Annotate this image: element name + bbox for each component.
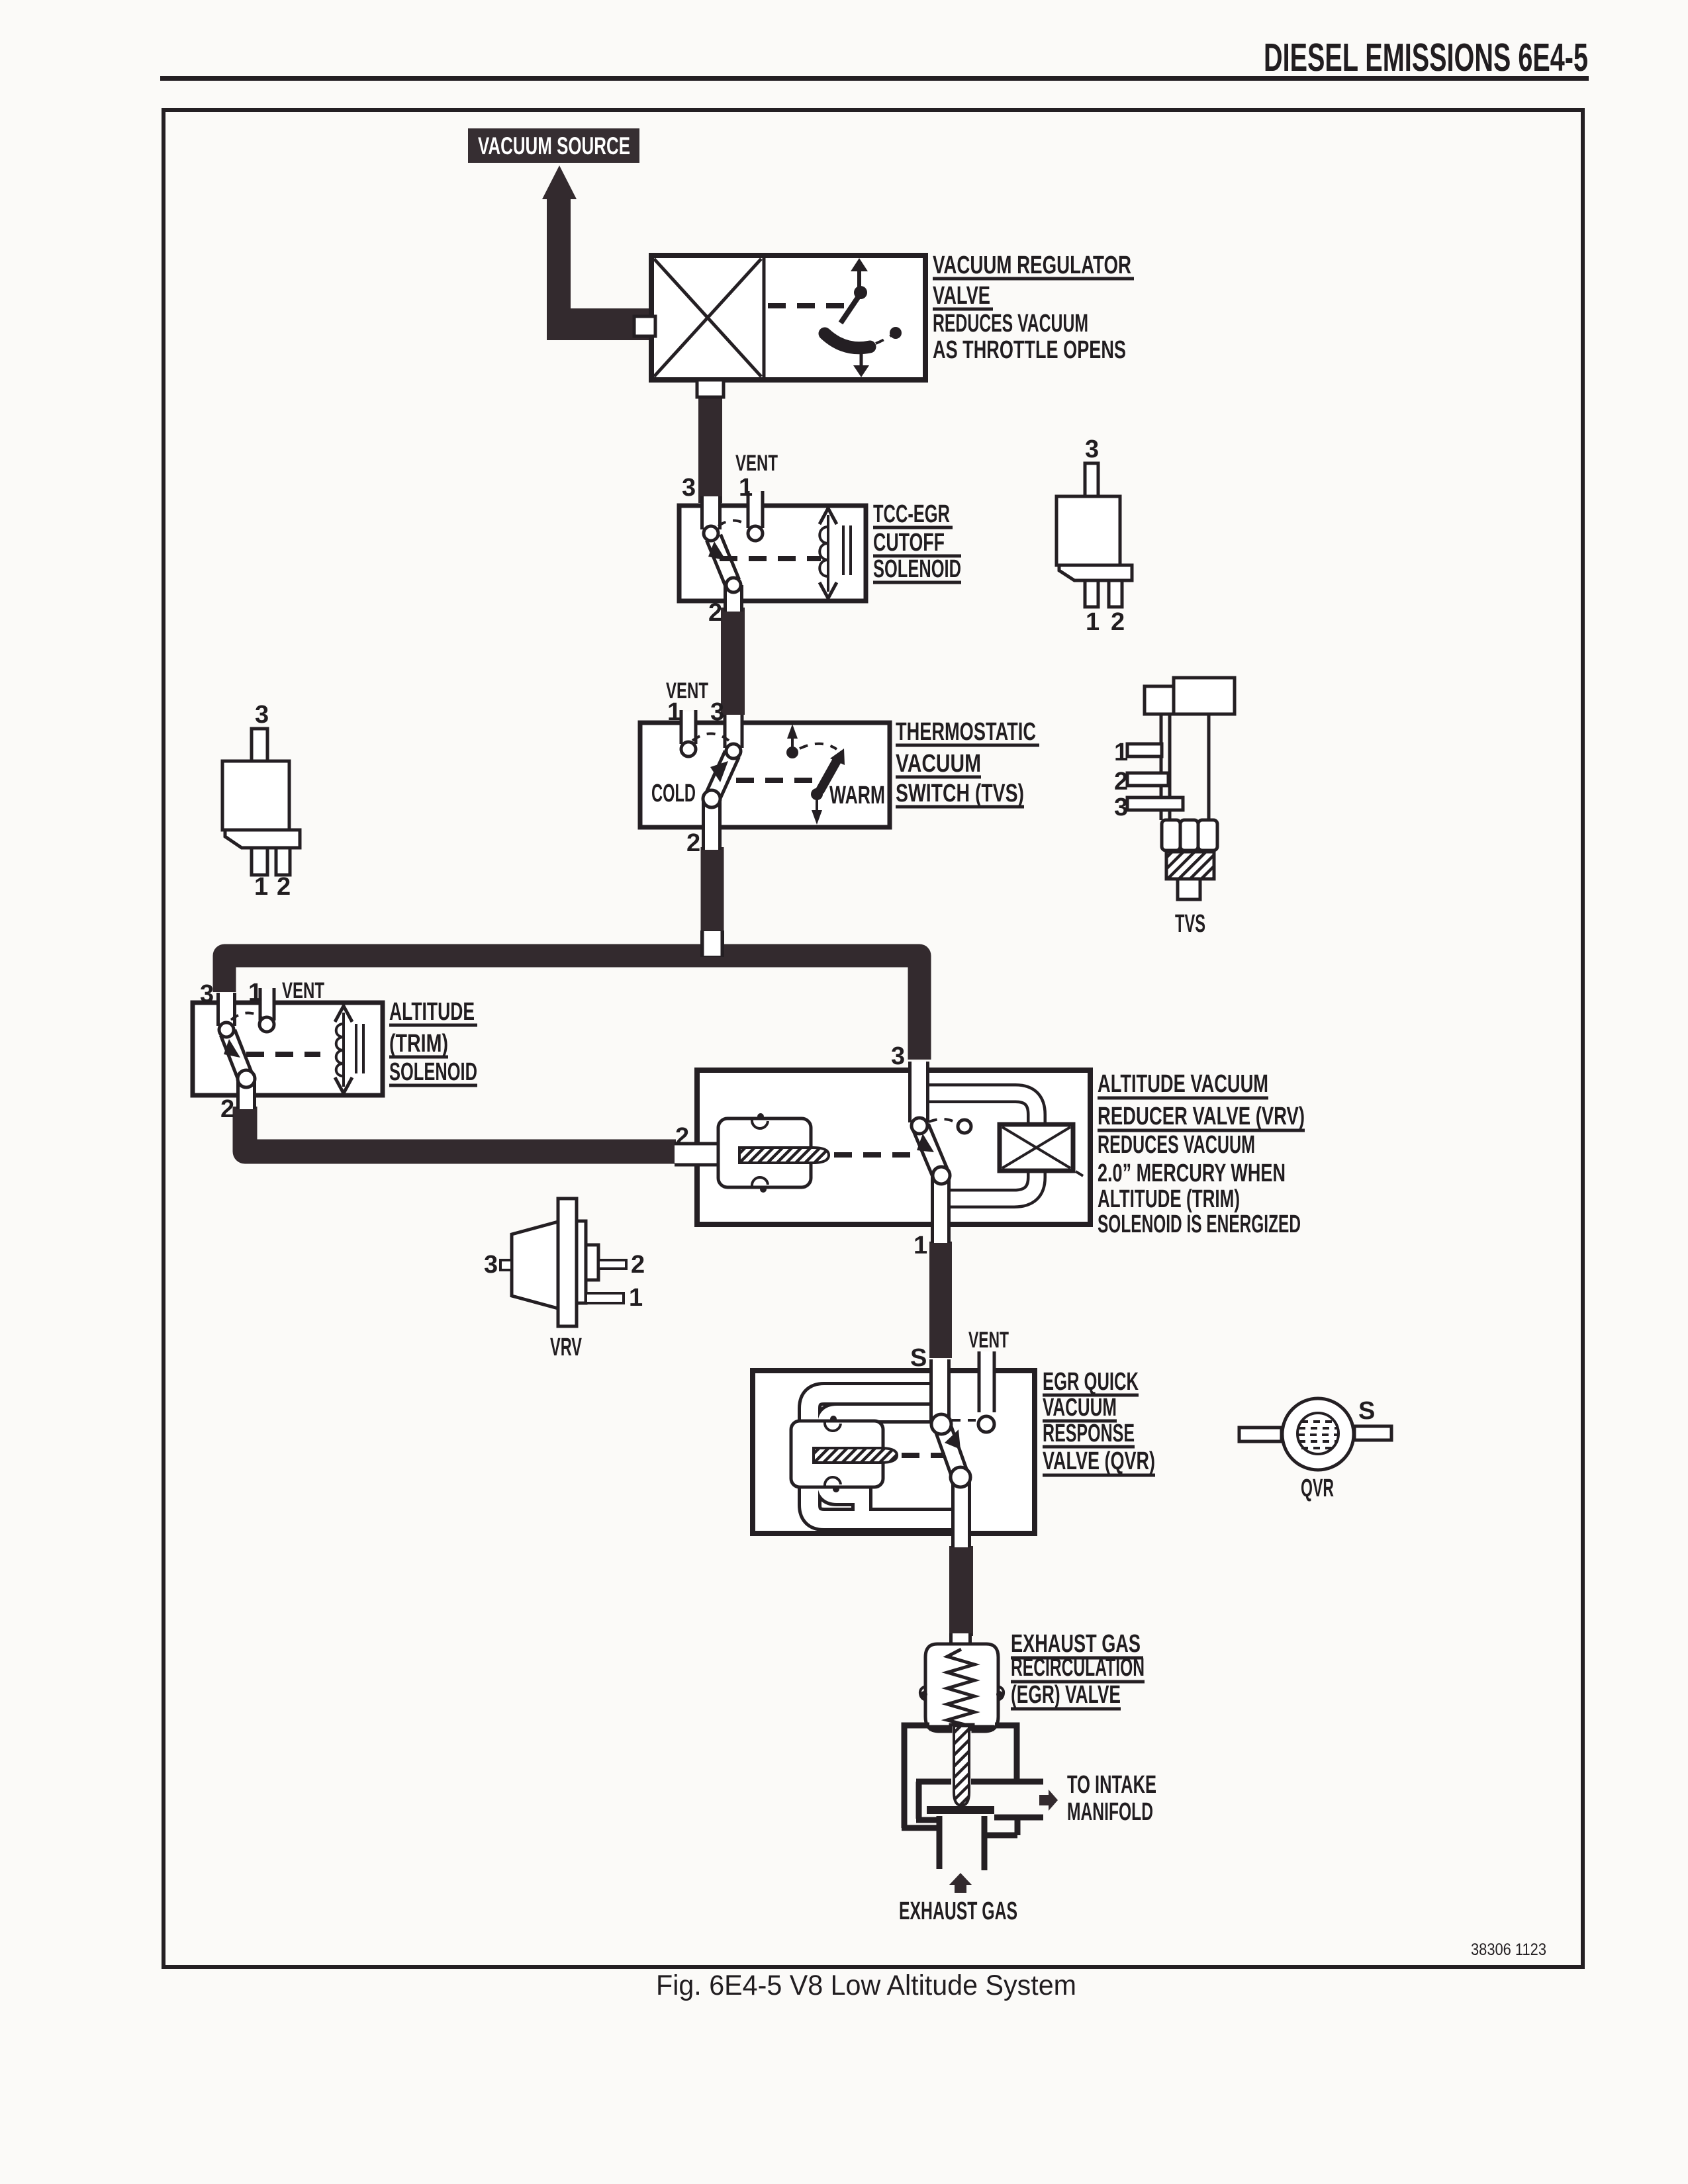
svg-text:SOLENOID: SOLENOID — [873, 555, 961, 583]
svg-text:3: 3 — [710, 698, 724, 726]
svg-text:1: 1 — [914, 1232, 927, 1259]
svg-text:38306 1123: 38306 1123 — [1471, 1940, 1546, 1959]
svg-text:VACUUM SOURCE: VACUUM SOURCE — [478, 132, 630, 159]
svg-text:VENT: VENT — [968, 1328, 1009, 1353]
svg-text:3: 3 — [1114, 794, 1128, 821]
svg-text:2: 2 — [1114, 768, 1128, 796]
svg-text:2: 2 — [631, 1251, 645, 1279]
svg-text:SWITCH (TVS): SWITCH (TVS) — [896, 780, 1024, 807]
svg-text:DIESEL EMISSIONS 6E4-5: DIESEL EMISSIONS 6E4-5 — [1264, 36, 1588, 79]
svg-text:ALTITUDE (TRIM): ALTITUDE (TRIM) — [1098, 1185, 1240, 1213]
svg-text:2: 2 — [220, 1095, 234, 1123]
svg-text:QVR: QVR — [1301, 1475, 1334, 1502]
svg-text:EGR QUICK: EGR QUICK — [1043, 1368, 1139, 1396]
svg-text:3: 3 — [1085, 435, 1099, 463]
svg-text:AS THROTTLE OPENS: AS THROTTLE OPENS — [933, 336, 1126, 364]
svg-text:WARM: WARM — [829, 782, 885, 809]
svg-text:REDUCER VALVE (VRV): REDUCER VALVE (VRV) — [1098, 1103, 1305, 1130]
svg-text:RESPONSE: RESPONSE — [1043, 1420, 1135, 1447]
svg-text:VACUUM: VACUUM — [896, 750, 981, 778]
svg-text:2.0” MERCURY WHEN: 2.0” MERCURY WHEN — [1098, 1160, 1286, 1187]
svg-text:SOLENOID IS ENERGIZED: SOLENOID IS ENERGIZED — [1098, 1210, 1301, 1238]
svg-text:SOLENOID: SOLENOID — [389, 1058, 477, 1086]
svg-text:3: 3 — [200, 980, 214, 1008]
svg-text:TO INTAKE: TO INTAKE — [1067, 1771, 1156, 1799]
svg-text:REDUCES VACUUM: REDUCES VACUUM — [933, 310, 1088, 338]
svg-text:VACUUM: VACUUM — [1043, 1394, 1117, 1422]
svg-text:REDUCES VACUUM: REDUCES VACUUM — [1098, 1131, 1255, 1159]
svg-text:(TRIM): (TRIM) — [389, 1030, 448, 1058]
svg-text:2: 2 — [675, 1123, 689, 1151]
svg-text:3: 3 — [682, 474, 696, 502]
svg-text:1: 1 — [248, 979, 262, 1007]
svg-text:VENT: VENT — [282, 978, 324, 1003]
svg-text:ALTITUDE VACUUM: ALTITUDE VACUUM — [1098, 1070, 1268, 1098]
svg-text:THERMOSTATIC: THERMOSTATIC — [896, 718, 1036, 746]
svg-text:2: 2 — [686, 829, 700, 857]
svg-text:1: 1 — [629, 1284, 643, 1312]
svg-text:VENT: VENT — [735, 451, 778, 476]
svg-text:VACUUM REGULATOR: VACUUM REGULATOR — [933, 251, 1131, 279]
svg-text:3: 3 — [255, 701, 269, 729]
svg-text:1: 1 — [254, 873, 268, 901]
svg-text:MANIFOLD: MANIFOLD — [1067, 1798, 1153, 1826]
svg-text:1: 1 — [1086, 608, 1100, 636]
svg-text:S: S — [1358, 1397, 1375, 1425]
svg-text:(EGR) VALVE: (EGR) VALVE — [1011, 1681, 1121, 1709]
svg-text:3: 3 — [891, 1042, 905, 1070]
svg-text:TVS: TVS — [1175, 910, 1205, 938]
svg-text:2: 2 — [277, 873, 291, 901]
svg-text:VRV: VRV — [550, 1334, 582, 1361]
svg-text:ALTITUDE: ALTITUDE — [389, 998, 475, 1026]
svg-text:EXHAUST GAS: EXHAUST GAS — [899, 1897, 1017, 1925]
svg-text:VALVE: VALVE — [933, 282, 990, 310]
svg-text:2: 2 — [1111, 608, 1125, 636]
svg-text:Fig. 6E4-5 V8 Low Altitude Sys: Fig. 6E4-5 V8 Low Altitude System — [656, 1970, 1076, 2001]
svg-text:2: 2 — [708, 599, 722, 627]
svg-text:TCC-EGR: TCC-EGR — [873, 500, 950, 528]
svg-text:CUTOFF: CUTOFF — [873, 529, 945, 557]
svg-text:S: S — [910, 1344, 927, 1372]
svg-text:1: 1 — [667, 698, 681, 726]
svg-text:VALVE (QVR): VALVE (QVR) — [1043, 1447, 1155, 1475]
svg-text:1: 1 — [1114, 739, 1128, 766]
svg-text:3: 3 — [484, 1251, 498, 1279]
svg-text:RECIRCULATION: RECIRCULATION — [1011, 1654, 1145, 1682]
svg-text:COLD: COLD — [651, 780, 696, 807]
svg-text:1: 1 — [739, 474, 753, 502]
